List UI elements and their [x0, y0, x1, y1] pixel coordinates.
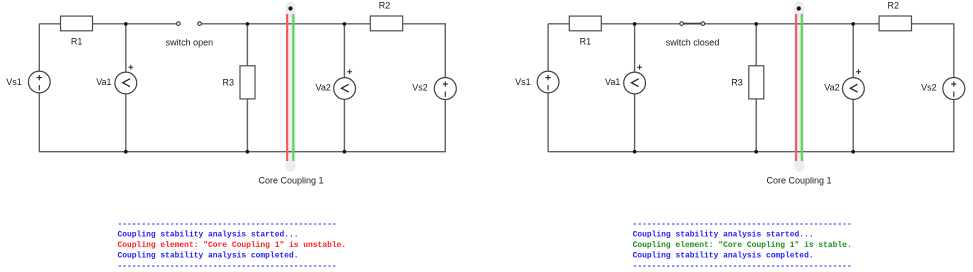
svg-text:R3: R3 — [731, 77, 743, 87]
svg-text:Coupling stability analysis co: Coupling stability analysis completed. — [118, 251, 299, 260]
coupling capsule (Core Coupling 1 body) — [286, 2, 296, 173]
wire R3 branch upper — [246, 24, 248, 66]
voltmeter Va2 — [334, 69, 356, 99]
voltage source Vs1 (right circuit) — [537, 71, 559, 93]
svg-text:------------------------------: ----------------------------------------… — [118, 220, 337, 229]
wire switch right terminal to R2 (right circuit) — [705, 23, 879, 25]
resistor R2 (right circuit) — [879, 16, 911, 31]
wire closed switch bar — [682, 23, 703, 25]
switch SW1 closed (right terminal) — [701, 22, 705, 26]
wire top-left horizontal right circuit — [548, 23, 569, 25]
svg-text:R2: R2 — [379, 0, 391, 10]
svg-text:------------------------------: ----------------------------------------… — [633, 262, 852, 271]
junction node Va2-bottom (right circuit) — [851, 150, 855, 154]
wire Va1 branch lower (right circuit) — [634, 94, 636, 152]
junction node R3-bottom — [246, 150, 250, 154]
svg-text:------------------------------: ----------------------------------------… — [633, 220, 852, 229]
wire Va2 branch upper (right circuit) — [852, 24, 854, 78]
core coupling 1 green line (right circuit) — [801, 14, 803, 161]
wire R3 branch lower — [246, 99, 248, 152]
junction node Va2-top (right circuit) — [851, 22, 855, 26]
voltmeter Va2 (right circuit) — [843, 69, 865, 99]
junction node Va1-bottom (right circuit) — [633, 150, 637, 154]
wire right rail lower (right circuit) — [953, 100, 955, 153]
wire R2 to top-right corner — [403, 23, 446, 25]
junction node Va2-bottom — [343, 150, 347, 154]
svg-text:R1: R1 — [580, 37, 592, 47]
svg-text:R2: R2 — [888, 0, 900, 10]
svg-text:Core Coupling 1: Core Coupling 1 — [766, 176, 831, 186]
wire Va2 branch lower (right circuit) — [852, 99, 854, 151]
wire right rail upper (corner to Vs2) — [444, 24, 446, 78]
svg-text:Coupling stability analysis st: Coupling stability analysis started... — [633, 230, 814, 239]
resistor R2 — [370, 16, 402, 31]
wire left rail upper (right circuit) — [547, 24, 549, 72]
junction node R3-bottom (right circuit) — [754, 150, 758, 154]
wire R2 to top-right corner (right circuit) — [912, 23, 955, 25]
junction node R3-top — [246, 22, 250, 26]
wire Va1 branch lower — [125, 94, 127, 152]
wire right rail lower (Vs2 to bottom corner) — [444, 100, 446, 153]
voltmeter Va1 (right circuit) — [624, 65, 646, 94]
wire Va1 branch upper (right circuit) — [634, 24, 636, 72]
svg-text:switch closed: switch closed — [666, 38, 720, 48]
core coupling 1 red line — [286, 14, 288, 161]
svg-text:Coupling stability analysis co: Coupling stability analysis completed. — [633, 251, 814, 260]
wire left rail lower (right circuit) — [547, 93, 549, 152]
wire Va2 branch upper — [343, 24, 345, 78]
wire bottom rail — [39, 151, 446, 153]
switch SW1 closed (left terminal) — [680, 22, 684, 26]
wire top-left horizontal (Vs1 corner to R1) — [39, 23, 60, 25]
wire Va1 branch upper — [125, 24, 127, 72]
voltage source Vs2 (right circuit) — [943, 78, 965, 100]
resistor R1 — [61, 16, 93, 31]
resistor R1 (right circuit) — [569, 16, 601, 31]
svg-text:Coupling stability analysis st: Coupling stability analysis started... — [118, 230, 299, 239]
wire switch right terminal to R2 — [201, 23, 370, 25]
svg-text:R3: R3 — [222, 77, 234, 87]
resistor R3 — [240, 66, 255, 99]
core coupling 1 top node dot (right circuit) — [797, 6, 801, 10]
wire bottom rail (right circuit) — [548, 151, 954, 153]
svg-text:Va2: Va2 — [824, 82, 839, 92]
svg-text:Va2: Va2 — [316, 82, 331, 92]
junction node Va1-bottom — [124, 150, 128, 154]
core coupling 1 green line — [292, 14, 294, 161]
wire R3 branch lower (right circuit) — [755, 99, 757, 152]
wire R3 branch upper (right circuit) — [755, 24, 757, 66]
wire right rail upper (right circuit) — [953, 24, 955, 78]
coupling capsule right (Core Coupling 1 body) — [794, 2, 804, 173]
voltmeter Va1 — [115, 65, 137, 94]
switch SW1 open (left terminal) — [177, 22, 181, 26]
svg-text:Vs2: Vs2 — [921, 82, 937, 92]
svg-text:Va1: Va1 — [605, 77, 620, 87]
svg-text:Vs2: Vs2 — [412, 82, 428, 92]
wire R1 to switch left terminal (right circuit) — [601, 23, 680, 25]
svg-text:Coupling element: "Core Coupli: Coupling element: "Core Coupling 1" is u… — [118, 241, 347, 250]
svg-text:Coupling element: "Core Coupli: Coupling element: "Core Coupling 1" is s… — [633, 241, 852, 250]
svg-text:switch open: switch open — [166, 38, 214, 48]
junction node Va1-top — [124, 22, 128, 26]
junction node Va1-top (right circuit) — [633, 22, 637, 26]
core coupling 1 top node dot — [288, 6, 292, 10]
wire left rail lower (Vs1 to bottom corner) — [38, 93, 40, 152]
svg-text:Vs1: Vs1 — [515, 77, 531, 87]
junction node R3-top (right circuit) — [754, 22, 758, 26]
junction node Va2-top — [343, 22, 347, 26]
wire Va2 branch lower — [343, 99, 345, 151]
svg-text:Va1: Va1 — [96, 77, 111, 87]
wire R1 to switch left terminal — [93, 23, 177, 25]
svg-text:Vs1: Vs1 — [6, 77, 22, 87]
svg-text:------------------------------: ----------------------------------------… — [118, 262, 337, 271]
wire left rail upper (corner to Vs1) — [38, 24, 40, 72]
voltage source Vs1 — [28, 71, 50, 93]
voltage source Vs2 — [434, 78, 456, 100]
svg-text:R1: R1 — [71, 37, 83, 47]
svg-text:Core Coupling 1: Core Coupling 1 — [258, 176, 323, 186]
switch SW1 open (right terminal) — [198, 22, 202, 26]
core coupling 1 red line (right circuit) — [795, 14, 797, 161]
resistor R3 (right circuit) — [749, 66, 764, 99]
